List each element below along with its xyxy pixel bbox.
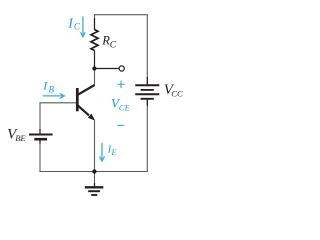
minus sign VCE: [117, 124, 124, 126]
resistor RC: [91, 30, 98, 51]
battery VBE top lead: [39, 129, 41, 134]
current arrow IE: [101, 143, 103, 161]
battery VCC plate long top: [135, 84, 159, 86]
svg-text:BE: BE: [15, 133, 26, 143]
resistor RC top lead: [94, 18, 96, 30]
svg-text:CE: CE: [119, 102, 131, 112]
resistor RC bottom lead: [94, 51, 96, 69]
battery VBE plate long: [29, 134, 53, 136]
battery VCC top lead: [146, 77, 148, 84]
node C junction dot: [92, 66, 96, 70]
svg-text:I: I: [42, 79, 48, 93]
wire output stub: [95, 68, 120, 70]
transistor Q1 base bar: [76, 88, 79, 111]
battery VCC bottom lead: [146, 100, 148, 106]
svg-text:C: C: [74, 22, 81, 32]
svg-text:C: C: [110, 41, 117, 51]
battery VCC plate long lower: [135, 93, 159, 95]
battery VBE plate short: [34, 138, 47, 141]
battery VCC plate short bottom: [141, 98, 154, 100]
plus sign VCE: [117, 81, 124, 88]
output terminal circle: [119, 66, 124, 71]
battery VBE bottom lead: [39, 139, 41, 144]
wire base lead (VBE+ to base): [40, 103, 76, 134]
wire collector lead: [94, 69, 96, 86]
svg-text:E: E: [111, 148, 117, 157]
transistor Q1 emitter diagonal with arrow: [77, 105, 89, 116]
battery VCC plate short upper: [141, 89, 154, 91]
wire emitter lead: [94, 120, 96, 171]
wire top rail (RC top to VCC+): [95, 15, 148, 85]
node E junction dot: [92, 169, 96, 173]
current arrow IB: [43, 95, 64, 97]
svg-text:CC: CC: [171, 88, 183, 98]
svg-text:B: B: [49, 85, 55, 95]
transistor Q1 collector diagonal: [77, 85, 95, 95]
wire ground stub: [94, 172, 96, 187]
ground: [85, 186, 104, 188]
current arrow IC: [82, 16, 84, 36]
wire bottom rail (VCC- to VBE-): [40, 100, 147, 172]
ground lead: [94, 183, 96, 187]
